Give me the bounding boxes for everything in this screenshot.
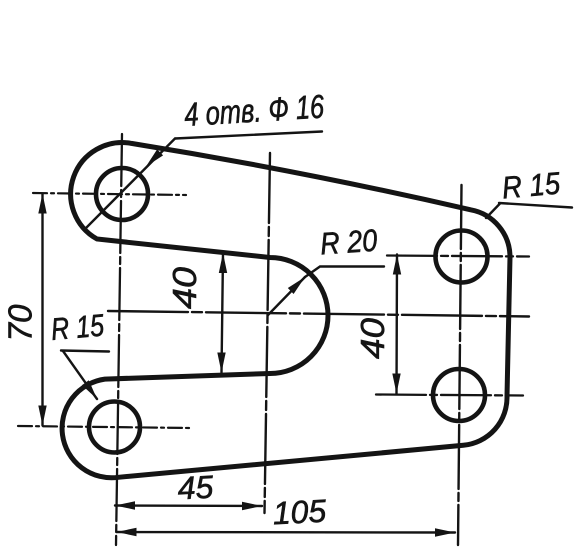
svg-text:105: 105 (272, 493, 327, 532)
arrow 45 left (115, 501, 135, 509)
svg-text:40: 40 (166, 266, 203, 309)
arrow 70 bottom (38, 406, 46, 426)
svg-text:70: 70 (2, 304, 39, 342)
arrow Ф16 leader (146, 149, 163, 166)
dimension line 70 (41, 194, 43, 426)
arrow R15 bottom-left (82, 380, 97, 399)
hole H3 top-right (436, 231, 488, 283)
centerline H4 horizontal (376, 395, 523, 396)
leader R15 top-right underline (499, 203, 572, 208)
dimension line 45 (115, 504, 262, 507)
leader R15 bottom-left diagonal (63, 351, 97, 399)
dimension line 40 right (395, 255, 398, 394)
arrow 45 right (242, 502, 262, 510)
arrow 40right top (393, 255, 401, 275)
arrow 105 right (435, 528, 455, 536)
hole H2 bottom-left (89, 402, 140, 453)
leader R20 radius line (268, 277, 305, 315)
svg-text:R 20: R 20 (319, 223, 378, 262)
centerline H1 horizontal (33, 193, 186, 195)
leader 4otv underline (175, 132, 322, 139)
arrow 40mid top (219, 253, 227, 273)
arrow 70 top (38, 194, 46, 214)
svg-text:45: 45 (177, 469, 215, 507)
centerline H3 horizontal (387, 256, 529, 257)
dimension line 105 (117, 531, 456, 534)
arrow R20 (288, 277, 305, 294)
svg-text:R 15: R 15 (50, 307, 106, 347)
arrow 40mid bottom (217, 353, 225, 373)
centerline horizontal axis (108, 311, 529, 317)
leader 4otv diagonal (84, 139, 175, 231)
arrow 105 left (117, 528, 137, 536)
centerline H2 horizontal (18, 426, 192, 428)
centerline left vertical (116, 134, 122, 545)
centerline right vertical (458, 185, 462, 545)
dimension line 40 middle (222, 253, 224, 373)
leader R15 top-right diagonal (486, 204, 500, 219)
hole H4 bottom-right (433, 369, 485, 421)
arrow 40right bottom (392, 374, 400, 394)
leader R15 bottom-left underline (61, 351, 109, 352)
leader R20 bend and underline (305, 267, 384, 278)
svg-text:R 15: R 15 (501, 165, 562, 205)
centerline cutout vertical (265, 153, 271, 513)
plate outline (62, 143, 510, 478)
svg-text:4 отв. Ф 16: 4 отв. Ф 16 (183, 87, 325, 133)
svg-text:40: 40 (354, 317, 391, 359)
hole H1 top-left (96, 168, 148, 220)
